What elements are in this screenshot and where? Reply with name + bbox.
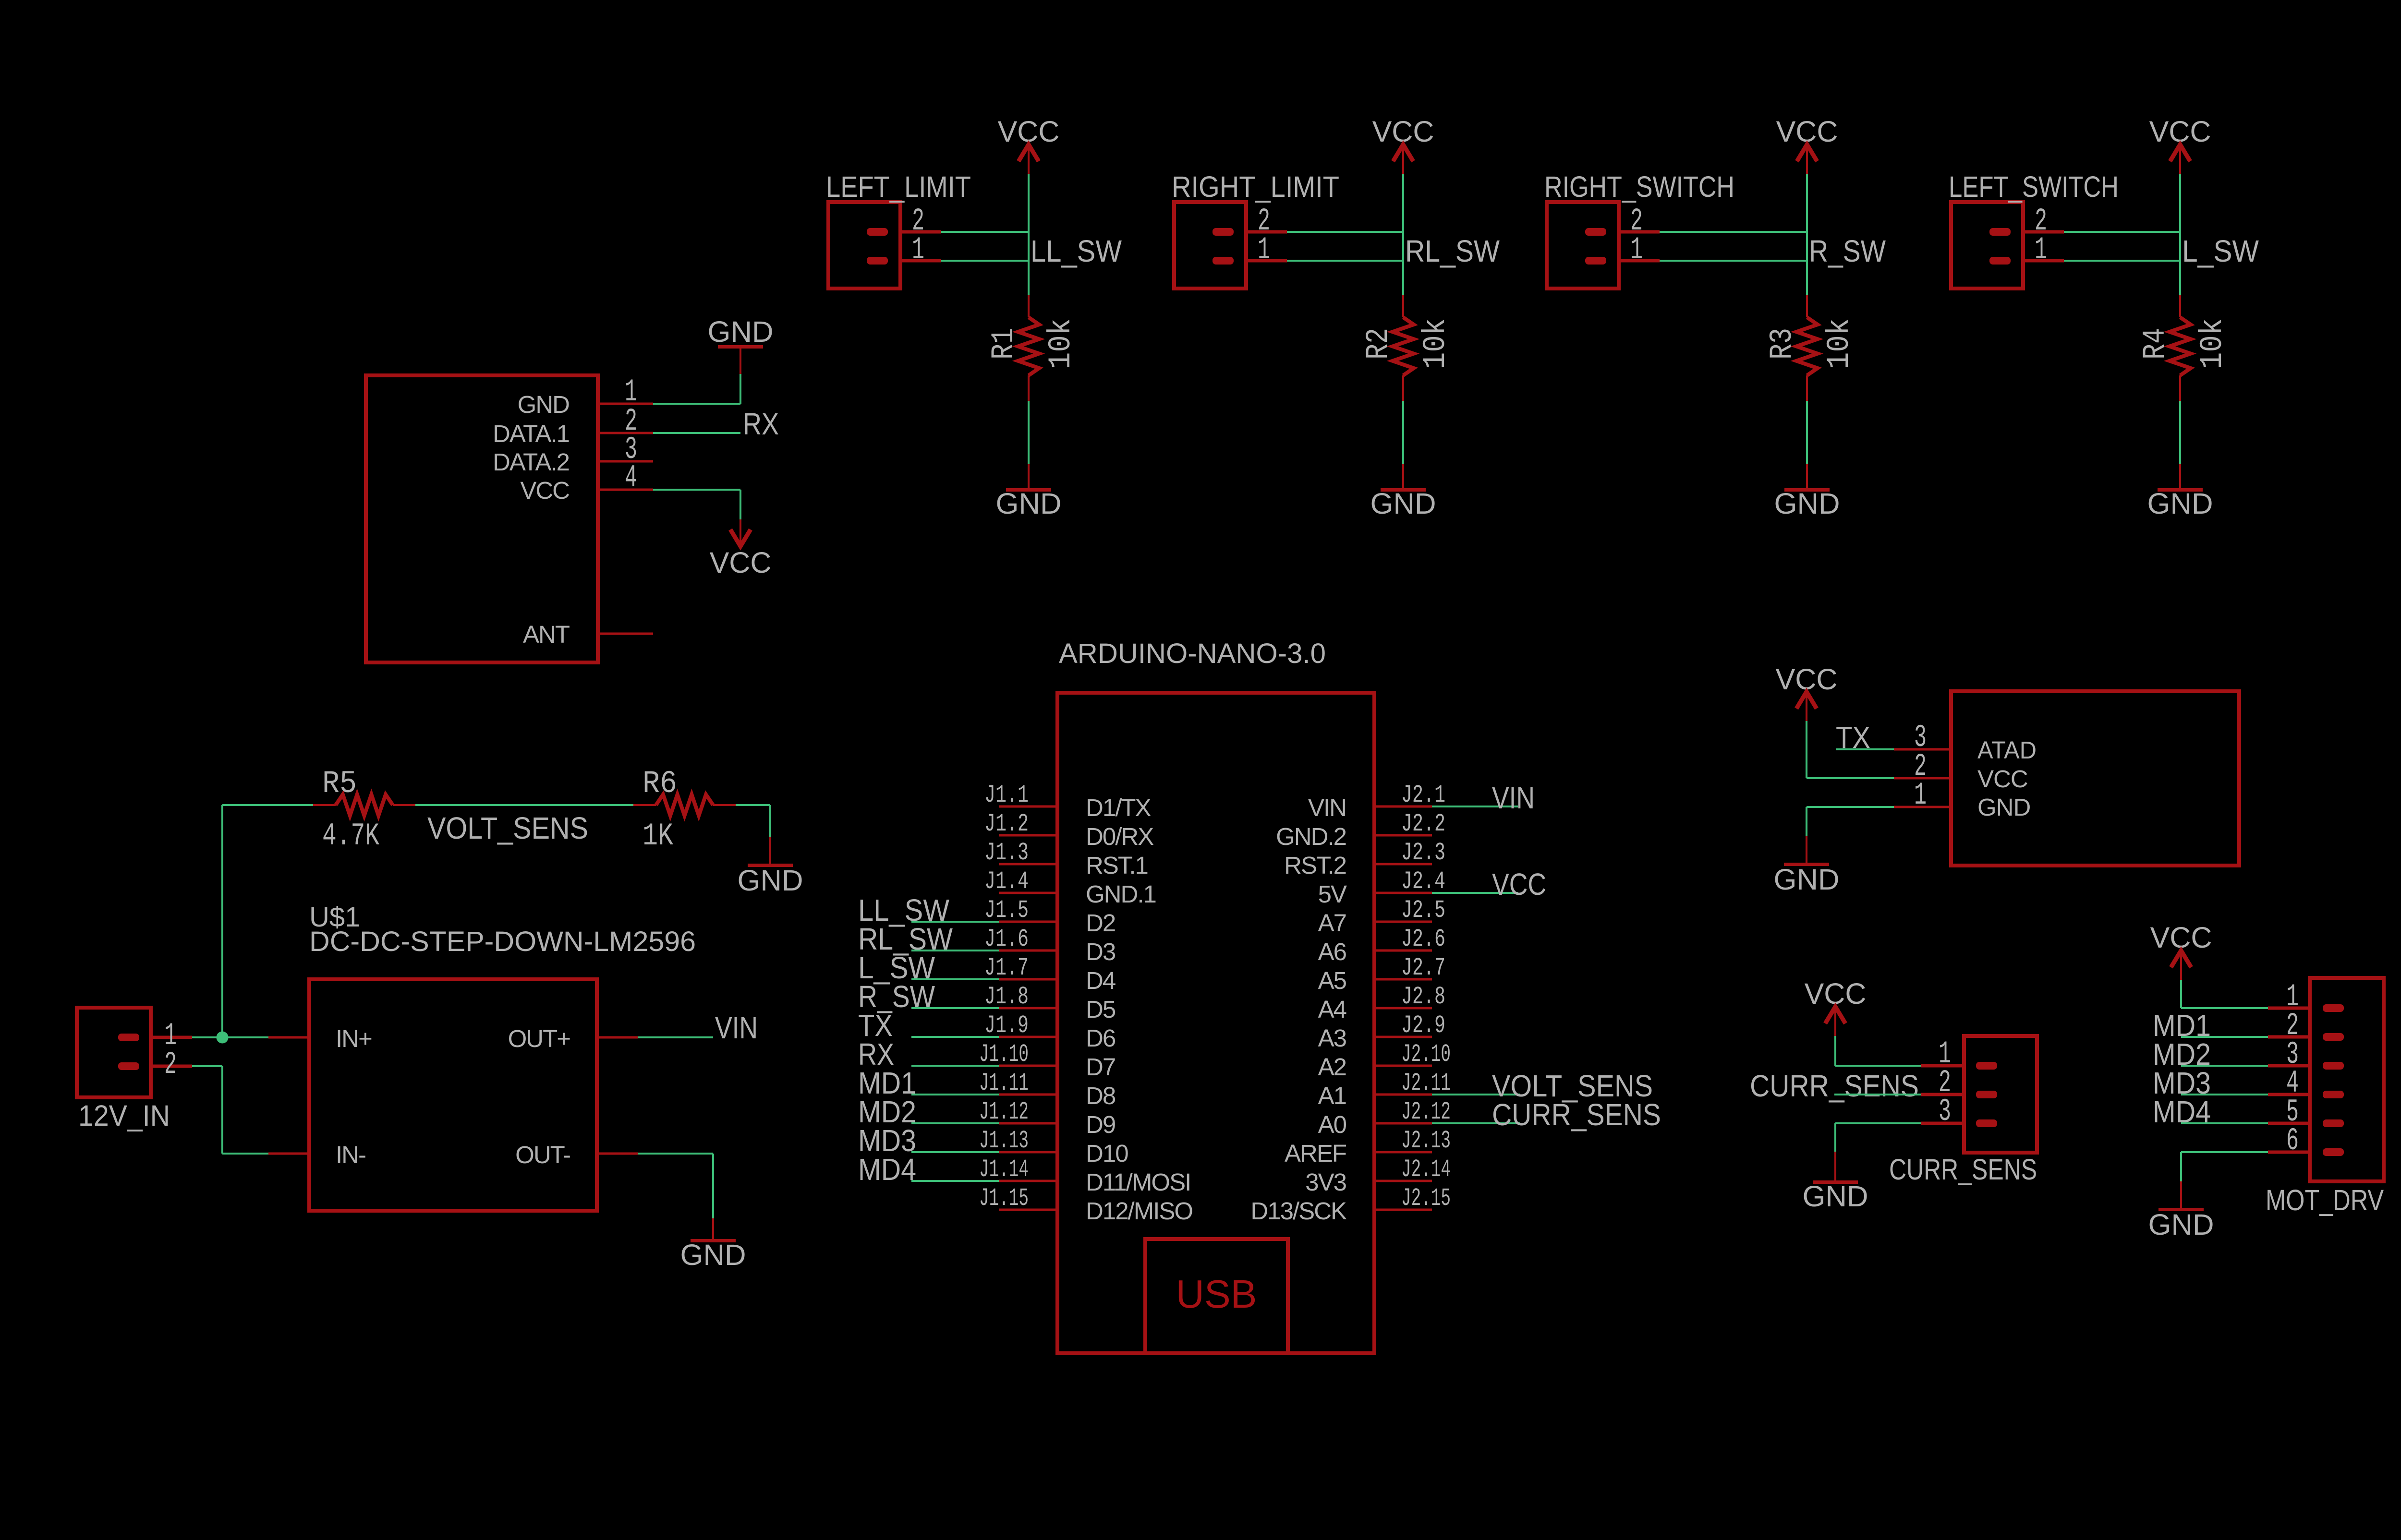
svg-text:D5: D5 (1086, 996, 1116, 1023)
svg-text:J2.11: J2.11 (1401, 1069, 1451, 1097)
svg-text:OUT-: OUT- (515, 1141, 570, 1168)
svg-text:VCC: VCC (1977, 765, 2028, 793)
svg-text:J1.1: J1.1 (984, 781, 1029, 809)
svg-text:GND.1: GND.1 (1086, 880, 1156, 908)
svg-text:1: 1 (1630, 232, 1643, 268)
svg-text:J2.15: J2.15 (1401, 1184, 1451, 1213)
svg-text:R6: R6 (643, 766, 677, 802)
svg-text:GND: GND (1774, 487, 1840, 520)
svg-text:J2.13: J2.13 (1401, 1127, 1451, 1155)
svg-text:J2.10: J2.10 (1401, 1040, 1451, 1069)
svg-text:A1: A1 (1318, 1082, 1346, 1109)
svg-text:D0/RX: D0/RX (1086, 823, 1153, 850)
svg-text:J1.11: J1.11 (979, 1069, 1029, 1097)
svg-text:GND: GND (1977, 794, 2030, 821)
svg-text:MD4: MD4 (2153, 1095, 2211, 1129)
svg-text:GND: GND (996, 487, 1062, 520)
svg-text:J1.15: J1.15 (979, 1184, 1029, 1213)
svg-text:R1: R1 (986, 328, 1022, 360)
svg-text:J1.9: J1.9 (984, 1011, 1029, 1040)
svg-text:J1.10: J1.10 (979, 1040, 1029, 1069)
svg-text:J1.6: J1.6 (984, 925, 1029, 953)
svg-text:10k: 10k (2195, 318, 2231, 369)
svg-text:6: 6 (2286, 1123, 2299, 1159)
svg-text:D8: D8 (1086, 1082, 1116, 1109)
svg-text:A2: A2 (1318, 1053, 1346, 1081)
svg-text:J2.4: J2.4 (1401, 867, 1445, 896)
svg-text:DC-DC-STEP-DOWN-LM2596: DC-DC-STEP-DOWN-LM2596 (309, 926, 696, 957)
svg-text:VIN: VIN (715, 1011, 758, 1045)
svg-text:LL_SW: LL_SW (1031, 234, 1122, 268)
svg-text:ARDUINO-NANO-3.0: ARDUINO-NANO-3.0 (1059, 638, 1326, 669)
svg-text:MOT_DRV: MOT_DRV (2266, 1184, 2384, 1216)
svg-text:VCC: VCC (710, 546, 772, 579)
svg-text:5V: 5V (1318, 880, 1347, 908)
svg-text:J1.2: J1.2 (984, 810, 1029, 838)
svg-text:D13/SCK: D13/SCK (1250, 1197, 1347, 1225)
svg-text:GND.2: GND.2 (1276, 823, 1346, 850)
svg-text:RIGHT_SWITCH: RIGHT_SWITCH (1544, 170, 1734, 203)
svg-text:A7: A7 (1318, 909, 1346, 937)
svg-text:RST.2: RST.2 (1284, 852, 1346, 879)
svg-text:J1.13: J1.13 (979, 1127, 1029, 1155)
svg-text:J2.5: J2.5 (1401, 896, 1445, 925)
svg-text:A0: A0 (1318, 1111, 1346, 1138)
svg-text:GND: GND (518, 391, 570, 418)
svg-text:J1.8: J1.8 (984, 983, 1029, 1011)
svg-text:A6: A6 (1318, 938, 1346, 965)
svg-text:R4: R4 (2137, 328, 2173, 360)
svg-text:J2.7: J2.7 (1401, 954, 1445, 982)
svg-text:GND: GND (1370, 487, 1436, 520)
svg-text:A5: A5 (1318, 967, 1346, 994)
svg-text:J2.14: J2.14 (1401, 1155, 1451, 1184)
svg-text:D7: D7 (1086, 1053, 1115, 1081)
svg-text:A4: A4 (1318, 996, 1346, 1023)
svg-text:D3: D3 (1086, 938, 1116, 965)
svg-text:DATA.1: DATA.1 (493, 420, 569, 447)
svg-text:GND: GND (1803, 1180, 1868, 1213)
svg-text:4: 4 (625, 460, 637, 496)
svg-text:VOLT_SENS: VOLT_SENS (427, 811, 588, 845)
svg-text:D9: D9 (1086, 1111, 1115, 1138)
svg-text:DATA.2: DATA.2 (493, 448, 569, 476)
svg-text:1: 1 (1914, 777, 1927, 813)
svg-text:D4: D4 (1086, 967, 1116, 994)
svg-text:GND: GND (2147, 487, 2213, 520)
svg-text:VIN: VIN (1308, 794, 1346, 821)
svg-text:J2.12: J2.12 (1401, 1098, 1451, 1126)
svg-text:1: 1 (1258, 232, 1270, 268)
svg-text:D1/TX: D1/TX (1086, 794, 1151, 821)
svg-text:J2.1: J2.1 (1401, 781, 1445, 809)
svg-text:10k: 10k (1821, 318, 1857, 369)
svg-text:2: 2 (164, 1047, 177, 1083)
svg-text:J1.7: J1.7 (984, 954, 1029, 982)
svg-text:GND: GND (708, 315, 774, 348)
svg-text:USB: USB (1176, 1272, 1257, 1316)
svg-text:ANT: ANT (523, 621, 570, 648)
svg-text:VCC: VCC (1492, 867, 1546, 902)
svg-text:GND: GND (738, 864, 803, 897)
svg-text:1: 1 (912, 232, 924, 268)
svg-text:CURR_SENS: CURR_SENS (1492, 1097, 1661, 1132)
svg-text:RX: RX (743, 407, 779, 441)
svg-text:CURR_SENS: CURR_SENS (1750, 1069, 1919, 1103)
svg-text:D11/MOSI: D11/MOSI (1086, 1168, 1190, 1196)
svg-text:10k: 10k (1418, 318, 1454, 369)
svg-text:J2.9: J2.9 (1401, 1011, 1445, 1040)
svg-text:IN+: IN+ (336, 1025, 372, 1052)
svg-text:GND: GND (2148, 1208, 2214, 1241)
svg-text:LEFT_SWITCH: LEFT_SWITCH (1949, 170, 2119, 203)
svg-text:12V_IN: 12V_IN (78, 1099, 170, 1132)
svg-text:A3: A3 (1318, 1024, 1346, 1052)
svg-text:J2.3: J2.3 (1401, 839, 1445, 867)
svg-text:GND: GND (1774, 863, 1840, 896)
svg-text:CURR_SENS: CURR_SENS (1889, 1153, 2037, 1186)
svg-text:RL_SW: RL_SW (1405, 234, 1500, 268)
svg-text:D2: D2 (1086, 909, 1115, 937)
svg-text:VCC: VCC (520, 477, 569, 504)
svg-text:R5: R5 (322, 766, 357, 802)
svg-text:D12/MISO: D12/MISO (1086, 1197, 1192, 1225)
svg-text:1: 1 (2035, 232, 2047, 268)
svg-text:ATAD: ATAD (1977, 736, 2037, 764)
svg-text:4.7K: 4.7K (322, 818, 379, 854)
svg-text:L_SW: L_SW (2182, 234, 2259, 268)
svg-text:TX: TX (1836, 720, 1870, 755)
svg-text:R3: R3 (1764, 328, 1800, 360)
svg-text:3: 3 (1939, 1094, 1951, 1130)
svg-text:LEFT_LIMIT: LEFT_LIMIT (826, 170, 971, 203)
svg-text:10k: 10k (1043, 318, 1079, 369)
svg-text:J1.4: J1.4 (984, 867, 1029, 896)
svg-text:RST.1: RST.1 (1086, 852, 1148, 879)
svg-text:J1.3: J1.3 (984, 839, 1029, 867)
svg-text:J2.6: J2.6 (1401, 925, 1445, 953)
svg-text:R_SW: R_SW (1809, 234, 1886, 268)
svg-text:IN-: IN- (336, 1141, 365, 1168)
svg-text:R2: R2 (1360, 328, 1396, 360)
svg-text:1K: 1K (643, 818, 673, 854)
svg-text:MD4: MD4 (858, 1152, 916, 1187)
svg-text:J2.2: J2.2 (1401, 810, 1445, 838)
svg-text:J1.12: J1.12 (979, 1098, 1029, 1126)
svg-text:J1.14: J1.14 (979, 1155, 1029, 1184)
svg-text:3V3: 3V3 (1305, 1168, 1346, 1196)
svg-text:OUT+: OUT+ (508, 1025, 570, 1052)
svg-text:AREF: AREF (1285, 1140, 1346, 1167)
svg-text:D10: D10 (1086, 1140, 1128, 1167)
svg-text:VIN: VIN (1492, 781, 1535, 815)
svg-text:J2.8: J2.8 (1401, 983, 1445, 1011)
svg-text:J1.5: J1.5 (984, 896, 1029, 925)
svg-text:RIGHT_LIMIT: RIGHT_LIMIT (1172, 170, 1339, 203)
svg-text:D6: D6 (1086, 1024, 1116, 1052)
svg-text:GND: GND (680, 1239, 746, 1271)
